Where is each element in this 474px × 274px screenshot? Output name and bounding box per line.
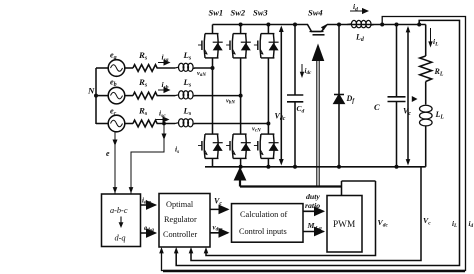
- arrow isa: [158, 62, 170, 64]
- wire inductor b to leg2: [194, 95, 240, 97]
- svg-text:vcN: vcN: [252, 126, 261, 134]
- source ec: [108, 115, 125, 132]
- bottom DC rail: [205, 166, 426, 168]
- iL sense line (top inner): [176, 20, 459, 265]
- svg-text:Sw1: Sw1: [209, 8, 224, 18]
- smoothing inductor Ld: [347, 20, 374, 27]
- svg-text:Df: Df: [346, 94, 356, 105]
- load branch wire top: [425, 25, 427, 57]
- capacitor Cd plates: [287, 95, 303, 102]
- wire phase b: [157, 95, 175, 97]
- wire phase c: [157, 123, 175, 125]
- id sense bottom run thick: [163, 270, 465, 272]
- svg-text:id-q: id-q: [142, 197, 151, 206]
- wire inductor c to leg3: [194, 123, 268, 125]
- svg-text:LL: LL: [435, 110, 445, 121]
- arrow idq abc-dq to controller: [141, 204, 156, 206]
- svg-text:Ls: Ls: [183, 106, 192, 118]
- switch Sw2 top module: [226, 34, 251, 58]
- switch Sw1 top module: [198, 34, 223, 58]
- gate drive big arrow to bridge: [239, 178, 241, 187]
- resistor Rs phase b: [133, 92, 157, 99]
- switch module bottom leg3: [254, 134, 279, 158]
- svg-text:Sw4: Sw4: [308, 8, 323, 18]
- arrow id: [350, 10, 368, 12]
- svg-text:id: id: [353, 2, 358, 12]
- e sense line to abc-dq: [114, 132, 116, 194]
- is sense line to abc-dq: [131, 124, 164, 194]
- svg-text:isb: isb: [162, 80, 169, 91]
- svg-text:Ls: Ls: [183, 50, 192, 62]
- optimal regulator controller block: [159, 194, 210, 248]
- svg-text:Rs: Rs: [138, 50, 148, 62]
- arrow edq abc-dq to controller: [141, 232, 156, 234]
- svg-text:vaN: vaN: [197, 70, 206, 78]
- wire N to source a: [96, 67, 108, 69]
- node after Ld (id sense tap): [380, 23, 384, 27]
- svg-text:Rs: Rs: [138, 106, 148, 118]
- resistor Rs phase c: [133, 120, 157, 127]
- leg 3 vertical: [267, 25, 269, 167]
- leg 1 vertical: [212, 25, 214, 167]
- svg-text:is: is: [175, 145, 179, 155]
- wire + current arrow ia: [157, 67, 175, 69]
- Vc measurement arrow: [407, 28, 409, 163]
- arrow iL: [430, 28, 432, 44]
- wire N to source b: [96, 95, 108, 97]
- arrow Mdq calculation to PWM: [303, 231, 324, 233]
- svg-text:Controller: Controller: [163, 230, 197, 239]
- load resistor RL: [420, 56, 432, 81]
- arrow isb: [158, 89, 170, 91]
- source eb: [108, 87, 125, 104]
- node vaN: [211, 66, 215, 70]
- svg-text:iL: iL: [433, 37, 439, 47]
- freewheel diode Df branch: [338, 25, 340, 167]
- svg-text:Sw3: Sw3: [253, 8, 268, 18]
- Vdc measurement arrow: [280, 28, 282, 164]
- svg-text:Ld: Ld: [355, 33, 364, 44]
- abc to dq transform block: [102, 194, 141, 247]
- svg-text:ea: ea: [110, 51, 117, 62]
- svg-text:Vdc: Vdc: [275, 112, 286, 123]
- wire LL to bottom rail: [425, 126, 427, 167]
- wire source b to resistor: [125, 95, 133, 97]
- load inductor LL: [420, 105, 433, 126]
- svg-text:Sw2: Sw2: [231, 8, 246, 18]
- svg-text:isa: isa: [162, 53, 169, 64]
- svg-text:idc: idc: [305, 67, 313, 76]
- wire N to source c: [96, 123, 108, 125]
- calculation of control inputs block: [232, 204, 304, 243]
- svg-text:isc: isc: [159, 109, 166, 120]
- svg-text:Optimal: Optimal: [166, 200, 194, 209]
- arrow duty ratio calculation to PWM: [303, 210, 324, 212]
- svg-text:ed-q: ed-q: [144, 224, 154, 233]
- svg-text:Vc: Vc: [214, 197, 222, 208]
- svg-text:Cd: Cd: [297, 104, 305, 114]
- svg-text:id: id: [469, 220, 474, 229]
- wire source a to resistor: [125, 67, 133, 69]
- svg-text:C: C: [374, 102, 380, 112]
- duty line PWM to gate arrows: [341, 181, 343, 196]
- svg-text:Calculation of: Calculation of: [240, 210, 287, 219]
- diode Df symbol: [334, 95, 344, 104]
- svg-text:e: e: [106, 149, 110, 158]
- svg-text:ratio: ratio: [305, 201, 320, 210]
- svg-text:d-q: d-q: [115, 234, 126, 243]
- svg-text:Md-q: Md-q: [307, 221, 323, 231]
- Vdc sense line: [206, 181, 376, 256]
- resistor Rs phase a: [133, 65, 157, 72]
- wire source c to resistor: [125, 123, 133, 125]
- svg-text:Ls: Ls: [183, 77, 192, 89]
- svg-text:a-b-c: a-b-c: [110, 206, 128, 215]
- idc annotation arrow: [301, 64, 303, 75]
- capacitor Cd branch: [294, 25, 296, 167]
- arrow vdq controller to calculation: [210, 232, 228, 234]
- svg-text:Rs: Rs: [138, 77, 148, 89]
- svg-text:ec: ec: [110, 107, 117, 118]
- svg-text:eb: eb: [110, 78, 117, 89]
- id sense line (top outer): [162, 17, 466, 271]
- svg-text:Vc: Vc: [423, 216, 431, 226]
- svg-text:Regulator: Regulator: [164, 215, 197, 224]
- svg-text:RL: RL: [434, 67, 444, 78]
- switch module bottom leg1: [198, 134, 223, 158]
- inductor Ls phase c: [175, 119, 195, 127]
- switch module bottom leg2: [226, 134, 251, 158]
- wire inductor a to leg1: [194, 67, 212, 69]
- gate drive big arrow to Sw4: [317, 58, 319, 187]
- leg 2 vertical: [240, 25, 242, 167]
- svg-text:PWM: PWM: [333, 220, 355, 230]
- arrow isc: [156, 119, 169, 121]
- svg-text:vd-q: vd-q: [213, 224, 223, 233]
- svg-text:duty: duty: [306, 192, 320, 201]
- junction dots bottom rail: [239, 165, 243, 169]
- node N (neutral bus): [95, 68, 97, 124]
- inductor Ls phase b: [175, 91, 195, 99]
- arrow Vc controller to calculation: [210, 208, 228, 210]
- svg-text:vbN: vbN: [226, 98, 235, 106]
- svg-text:Vdc: Vdc: [378, 218, 389, 228]
- switch Sw4 (series switch on dc rail): [302, 24, 327, 35]
- svg-text:Vc: Vc: [403, 107, 411, 118]
- svg-text:N: N: [87, 86, 95, 96]
- svg-text:Control inputs: Control inputs: [239, 227, 287, 236]
- node N junction dot: [94, 94, 98, 98]
- svg-text:iL: iL: [452, 220, 457, 229]
- source ea: [108, 60, 125, 77]
- top DC rail: [213, 24, 303, 26]
- PWM block: [327, 196, 362, 253]
- node vcN: [266, 122, 270, 126]
- inductor Ls phase a: [175, 63, 195, 71]
- Vc sense line: [191, 167, 421, 261]
- top rail after Sw4: [327, 24, 426, 26]
- switch Sw3 top module: [254, 34, 279, 58]
- capacitor C plates: [388, 97, 406, 102]
- node vbN: [239, 94, 243, 98]
- junction dots top rail: [239, 23, 243, 27]
- wire RL to LL: [425, 82, 427, 105]
- output capacitor C branch: [396, 25, 398, 167]
